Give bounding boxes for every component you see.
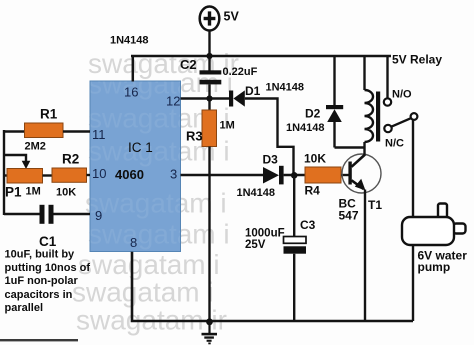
wire: R1 left lead	[4, 130, 25, 132]
note: C1 description	[5, 249, 91, 314]
edge artifacts (decorative)	[0, 339, 78, 341]
svg-text:C1: C1	[39, 234, 57, 249]
svg-text:capacitors in: capacitors in	[5, 289, 73, 301]
svg-text:parallel: parallel	[5, 302, 44, 314]
resistor R2 10K	[52, 168, 87, 182]
svg-text:3: 3	[170, 167, 177, 182]
svg-text:1N4148: 1N4148	[110, 35, 149, 47]
wire: relay common to pump	[412, 120, 414, 218]
svg-text:R3: R3	[186, 129, 203, 144]
svg-text:25V: 25V	[245, 239, 266, 251]
svg-text:12: 12	[166, 94, 180, 109]
diode D3 1N4148	[263, 166, 284, 185]
wire: emitter to ground rail	[364, 190, 366, 322]
relay coil	[365, 56, 374, 148]
svg-text:D3: D3	[263, 153, 279, 167]
wire: left sensor bus	[3, 130, 5, 215]
relay N/O contact	[384, 98, 391, 105]
svg-text:1uF non-polar: 1uF non-polar	[5, 275, 79, 287]
svg-text:10: 10	[92, 166, 106, 181]
svg-text:1N4148: 1N4148	[237, 187, 276, 199]
svg-text:11: 11	[92, 127, 106, 142]
svg-text:5V Relay: 5V Relay	[392, 53, 442, 67]
diode D1 1N4148	[229, 90, 245, 106]
wire: D2 bottom to collector node	[335, 146, 365, 148]
svg-text:2M2: 2M2	[25, 141, 46, 153]
svg-text:10K: 10K	[56, 187, 76, 199]
preset P1 wiper arm	[4, 155, 30, 169]
wire: pin 8 to ground rail	[132, 252, 413, 321]
capacitor C1	[4, 205, 90, 224]
relay N/C contact	[384, 125, 391, 132]
wire: pin 3 output	[181, 174, 264, 176]
svg-text:1M: 1M	[220, 120, 235, 132]
svg-text:5V: 5V	[224, 10, 240, 24]
wire: D1 anode to corner	[245, 99, 294, 176]
svg-text:8: 8	[130, 235, 137, 250]
svg-text:N/O: N/O	[392, 89, 412, 101]
svg-text:P1: P1	[5, 185, 22, 200]
svg-text:N/C: N/C	[385, 138, 404, 150]
svg-text:C3: C3	[300, 218, 316, 232]
resistor R4 10K	[305, 167, 341, 183]
wire: pin 16 riser to rail	[132, 56, 135, 82]
svg-text:16: 16	[124, 85, 138, 100]
svg-text:swagatam i: swagatam i	[72, 277, 214, 308]
capacitor C2	[200, 56, 222, 99]
node: ground junction	[206, 318, 213, 325]
relay common pivot contact	[411, 113, 418, 120]
wire: N/O contact riser	[386, 56, 388, 98]
power +5V source symbol	[200, 7, 220, 31]
svg-text:4060: 4060	[115, 167, 144, 182]
svg-text:R4: R4	[305, 184, 321, 198]
svg-text:10uF, built by: 10uF, built by	[5, 249, 76, 261]
capacitor C3 1000uF	[284, 175, 307, 321]
svg-text:1M: 1M	[26, 186, 41, 198]
wire: R2 to pin 10	[87, 174, 91, 176]
wire: 5V stub	[208, 30, 210, 56]
watermark layer (decorative)	[72, 48, 239, 336]
svg-text:10K: 10K	[304, 152, 326, 166]
svg-text:swagatam i: swagatam i	[78, 249, 220, 280]
wire: R4 to base	[341, 174, 349, 176]
svg-text:9: 9	[95, 208, 102, 223]
svg-text:R1: R1	[40, 107, 58, 122]
svg-text:1000uF: 1000uF	[245, 228, 285, 240]
wire: R3 bottom to ground rail	[208, 147, 210, 322]
relay core bar	[376, 92, 380, 142]
node: D3/R4/C3 junction	[291, 172, 298, 179]
node: pin12/C2/R3/D1 junction	[206, 95, 212, 101]
svg-text:putting 10nos of: putting 10nos of	[5, 262, 91, 274]
svg-text:1N4148: 1N4148	[266, 82, 305, 94]
svg-text:D2: D2	[305, 107, 321, 121]
svg-text:R2: R2	[62, 152, 79, 167]
wire: D3 cathode to junction	[284, 174, 305, 176]
svg-text:C2: C2	[180, 57, 197, 72]
wire: R1 to pin 11	[63, 130, 90, 132]
svg-text:T1: T1	[368, 198, 382, 212]
svg-text:IC 1: IC 1	[128, 140, 153, 155]
transistor Q1 BC547	[342, 154, 381, 193]
svg-text:1N4148: 1N4148	[286, 122, 325, 134]
preset P1 1M body	[7, 169, 43, 184]
svg-text:pump: pump	[418, 260, 451, 274]
wire: P1 to R2	[43, 174, 53, 176]
node: rail/C2 junction	[206, 53, 212, 59]
svg-text:D1: D1	[245, 84, 261, 98]
relay armature arm	[391, 118, 411, 127]
wire: collector riser	[363, 148, 365, 157]
wire: +5V supply rail	[131, 55, 391, 58]
resistor R3 1M	[202, 99, 217, 147]
resistor R1 2M2	[25, 123, 64, 138]
wire: junction to D1 cathode	[210, 97, 230, 99]
wire: P1 left lead	[4, 174, 7, 176]
svg-text:0.22uF: 0.22uF	[223, 66, 258, 78]
wire: pin 12 to junction	[181, 97, 210, 99]
svg-text:547: 547	[339, 209, 359, 223]
diode D2 1N4148 (flyback)	[326, 56, 343, 148]
motor: 6V water pump body	[402, 204, 466, 246]
ground symbol	[202, 321, 218, 344]
wire: pump to ground rail	[412, 244, 414, 321]
